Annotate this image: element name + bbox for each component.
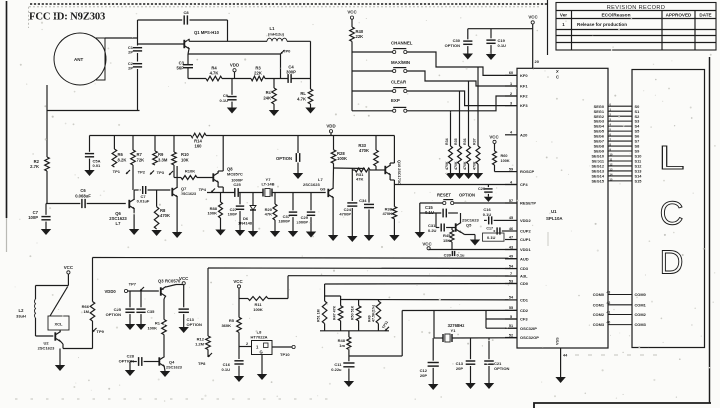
svg-text:R51 1M: R51 1M (317, 309, 321, 322)
svg-text:10K: 10K (181, 158, 189, 163)
capacitor C8 (183, 10, 189, 25)
wire OSC32IP (486, 327, 517, 329)
svg-text:470K: 470K (463, 161, 467, 170)
svg-text:VCC: VCC (422, 242, 432, 247)
resistor R12 line (195, 268, 210, 357)
svg-text:XCL: XCL (55, 322, 64, 327)
svg-text:33uH: 33uH (16, 314, 26, 319)
svg-text:52: 52 (509, 333, 513, 337)
svg-text:DATE: DATE (699, 13, 711, 18)
capacitor C21 OPTION and ground (484, 338, 510, 389)
svg-text:59: 59 (509, 167, 513, 171)
svg-text:TP8: TP8 (198, 361, 206, 366)
svg-text:S15: S15 (635, 179, 643, 184)
pin 45 VDD2 (505, 216, 531, 223)
svg-text:OPTION: OPTION (187, 322, 202, 327)
LCD panel (632, 70, 705, 348)
svg-text:1800P: 1800P (278, 219, 290, 224)
svg-text:ANT: ANT (74, 57, 83, 62)
test point TP8 (198, 353, 212, 366)
svg-text:20: 20 (535, 59, 540, 64)
pin 2 KF2 (505, 92, 528, 99)
svg-text:7: 7 (510, 272, 512, 276)
keypad feed bus (351, 41, 353, 110)
wire MAX/MIN to KF1 (407, 71, 517, 86)
capacitor C12 and ground (420, 338, 439, 390)
svg-text:VSS: VSS (556, 337, 560, 345)
capacitor C13 OPTION and ground (179, 309, 202, 333)
capacitor OPTION on bus (276, 136, 303, 180)
transistor Q4 (159, 357, 182, 370)
svg-text:100P: 100P (228, 212, 238, 217)
resistor R48 (338, 331, 351, 356)
svg-text:C17: C17 (486, 227, 493, 231)
power VCC keypad (347, 10, 357, 28)
resistor R6 (112, 136, 126, 168)
svg-text:OPTION: OPTION (106, 312, 121, 317)
resistor R34 pulldown (445, 111, 456, 179)
svg-text:C35: C35 (147, 309, 155, 314)
svg-text:56P: 56P (177, 65, 185, 70)
wire input line y203 (46, 203, 126, 205)
svg-text:22K: 22K (254, 71, 262, 76)
wire CD3 bus (208, 267, 517, 270)
svg-text:VCC: VCC (233, 279, 243, 284)
wire Q3 emitter to VCC (166, 285, 184, 288)
resistor R1 (147, 320, 166, 357)
svg-text:57: 57 (509, 199, 513, 203)
svg-text:47K: 47K (265, 212, 272, 217)
svg-text:470K: 470K (473, 161, 477, 170)
svg-text:OSC32OP: OSC32OP (520, 335, 539, 340)
svg-text:0.068uF: 0.068uF (75, 194, 91, 199)
wire Q1 collector to L1 (189, 40, 267, 42)
svg-text:C39: C39 (444, 253, 452, 258)
svg-text:VDD0: VDD0 (105, 289, 117, 294)
supply bus y135 (90, 135, 395, 137)
switch CLEAR (352, 80, 407, 93)
pin 44 VSS (555, 337, 568, 383)
svg-text:1N4148: 1N4148 (238, 221, 253, 226)
svg-text:COM0: COM0 (593, 292, 604, 297)
wire crystal left riser (433, 311, 435, 339)
svg-text:1000P: 1000P (296, 220, 308, 225)
svg-text:L: L (658, 139, 684, 176)
pin 4 CF4 (505, 180, 528, 187)
svg-text:R37: R37 (473, 138, 477, 145)
svg-text:SEG15: SEG15 (591, 179, 604, 184)
wire antenna bottom loop (47, 60, 140, 111)
capacitor C6 (75, 188, 91, 208)
test point TP4 (199, 187, 215, 193)
power VCC regulator (233, 279, 243, 317)
svg-text:0.1U: 0.1U (220, 98, 229, 103)
transistor Q9 (303, 177, 334, 198)
svg-text:2SC1623: 2SC1623 (303, 182, 320, 187)
capacitor C28 OPTION (119, 354, 142, 377)
svg-text:20P: 20P (420, 373, 427, 378)
pin 59 ROSCP (505, 167, 535, 174)
svg-text:470K: 470K (445, 161, 449, 170)
transistor Q1 (184, 30, 219, 49)
resistor R40 (350, 27, 364, 41)
svg-text:CLEAR: CLEAR (391, 80, 407, 85)
capacitor C15 (425, 205, 446, 217)
capacitor C37 and ground (278, 193, 298, 238)
resistor R14 series in bus (191, 133, 206, 148)
resistor R10 (172, 136, 190, 166)
wire feedback top (138, 20, 228, 41)
svg-text:470K: 470K (382, 211, 392, 216)
wire reset RC node (415, 203, 425, 238)
svg-text:A20: A20 (520, 132, 528, 137)
svg-text:R9: R9 (158, 152, 164, 157)
transistor Q3 PNP (158, 279, 181, 297)
svg-text:Release for production: Release for production (577, 22, 627, 27)
test point TP9 (93, 328, 105, 334)
wire Q8 collector to bus (218, 136, 223, 174)
wire Q7 collector (176, 166, 178, 188)
power VCC q3 (179, 276, 189, 307)
resistor R3 (251, 66, 265, 81)
svg-text:R10: R10 (181, 152, 189, 157)
svg-text:L2: L2 (19, 308, 25, 313)
wire C15 line (420, 212, 458, 214)
svg-text:Q5: Q5 (466, 223, 472, 228)
capacitor C35 and ground (136, 291, 155, 330)
svg-text:3.3M: 3.3M (158, 158, 168, 163)
revision record table (548, 0, 717, 55)
transistor Q8 (213, 167, 243, 183)
wire Q6 emitter ground (129, 208, 139, 235)
svg-text:R34: R34 (445, 138, 449, 145)
test point TP2 (138, 170, 154, 175)
svg-text:CD2: CD2 (520, 308, 529, 313)
resistor R31 horizontal (352, 168, 385, 182)
capacitor C16 (483, 207, 505, 224)
wire OSC32OP crystal line (434, 337, 517, 339)
tank loop wires (36, 286, 69, 337)
resistor R51 1M (317, 301, 327, 331)
svg-text:0.01uF: 0.01uF (137, 199, 150, 204)
svg-text:TP1: TP1 (113, 169, 121, 174)
inductor L1 (267, 26, 287, 41)
svg-text:47.5K(1%): 47.5K(1%) (372, 304, 376, 322)
svg-text:MAX/MIN: MAX/MIN (391, 60, 410, 65)
test point TP3 (157, 170, 173, 175)
capacitor C1 (128, 45, 142, 55)
capacitor C3 on Q1 emitter (177, 54, 193, 79)
FCC ID title (29, 12, 105, 23)
svg-text:0.1U: 0.1U (498, 43, 507, 48)
pin 57 RESETP (505, 199, 536, 206)
svg-text:VDD2: VDD2 (520, 218, 531, 223)
svg-text:MC857C: MC857C (227, 172, 243, 177)
svg-text:Y1: Y1 (451, 328, 457, 333)
wire Q9 collector node (333, 168, 365, 189)
diode D6 and ground (238, 193, 258, 238)
wire Q4 emitter ground (160, 366, 170, 377)
svg-text:VDD: VDD (326, 124, 335, 129)
svg-text:15K: 15K (443, 238, 450, 243)
IC U1 SPL10A body (517, 68, 608, 348)
svg-text:COM2: COM2 (635, 312, 647, 317)
crystal Y1 32768Hz (443, 323, 464, 342)
svg-text:OPTION: OPTION (459, 193, 475, 198)
wire CD2 bus (402, 309, 517, 311)
resistor R28 (331, 136, 347, 169)
svg-text:C26: C26 (478, 187, 485, 191)
resistor R5 (221, 317, 241, 346)
svg-text:COM3: COM3 (593, 322, 605, 327)
svg-text:1M: 1M (83, 309, 89, 314)
svg-text:300P: 300P (286, 70, 296, 75)
svg-text:D: D (660, 244, 684, 281)
crystal box XCL (48, 287, 69, 331)
test point TP0 (281, 49, 292, 55)
svg-text:C8: C8 (183, 10, 189, 15)
signal line y192 (207, 192, 326, 194)
capacitor C4 (286, 65, 296, 83)
svg-text:60: 60 (509, 71, 513, 75)
svg-text:0.1U: 0.1U (483, 212, 492, 217)
power VCC IC (528, 15, 539, 69)
svg-text:4.7K: 4.7K (297, 97, 306, 102)
svg-text:EXP: EXP (391, 98, 400, 103)
svg-text:TP9: TP9 (97, 329, 105, 334)
wire Q9 emitter ground (328, 197, 338, 241)
wire vertical C1/C2 branch (137, 20, 139, 111)
pin 52 OSC32OP (505, 333, 539, 340)
svg-text:470K: 470K (359, 148, 369, 153)
svg-text:43: 43 (509, 245, 513, 249)
svg-text:47: 47 (509, 235, 513, 239)
crystal Y7 (261, 177, 274, 197)
svg-text:100K: 100K (207, 211, 217, 216)
wire Q3 collector (164, 296, 166, 320)
svg-text:L7: L7 (116, 221, 122, 226)
transistor Q6 (109, 199, 134, 226)
switch RESET (437, 193, 475, 205)
svg-text:2P: 2P (128, 50, 133, 55)
svg-text:X: X (556, 69, 559, 74)
capacitor C2 (128, 61, 142, 71)
wire Q1 emitter / TP0 line (188, 48, 281, 78)
svg-text:L1: L1 (270, 26, 276, 31)
pin 53 CD0 (505, 279, 529, 286)
power VDD0 (105, 289, 159, 294)
wire Q2 emitter (60, 341, 92, 349)
wire CD0 drop (324, 284, 326, 301)
svg-text:42: 42 (607, 301, 611, 305)
power VCC osc (64, 265, 74, 286)
capacitor C11 and ground (331, 356, 354, 387)
pin 43 VDD1 (505, 245, 531, 252)
svg-text:VCC: VCC (347, 10, 357, 15)
svg-text:1.2M: 1.2M (195, 341, 205, 346)
capacitor C25 series (231, 178, 243, 197)
svg-text:Q1 MPS-H10: Q1 MPS-H10 (194, 30, 220, 35)
svg-text:C25: C25 (233, 182, 241, 187)
svg-text:55: 55 (509, 306, 513, 310)
svg-text:Q4: Q4 (169, 360, 175, 365)
svg-text:LT-14B: LT-14B (261, 182, 274, 187)
SEG pin rows (591, 103, 642, 184)
svg-text:VCC: VCC (64, 265, 74, 270)
capacitor C24 and ground (339, 168, 357, 242)
svg-text:VDD1: VDD1 (520, 247, 531, 252)
svg-text:470K: 470K (160, 213, 170, 218)
capacitor C26 OPTION on KF4 line (478, 185, 493, 202)
wire bias line y78 (188, 78, 311, 80)
svg-text:2SC1623: 2SC1623 (166, 366, 182, 370)
capacitor C7 and ground (28, 204, 51, 236)
wire Q10 collector to bus (390, 136, 394, 166)
COM pin rows (593, 291, 647, 328)
svg-text:360K: 360K (221, 323, 231, 328)
svg-text:46: 46 (509, 227, 513, 231)
wire AUD bus (93, 257, 518, 260)
svg-text:45: 45 (509, 216, 513, 220)
svg-text:0.1U: 0.1U (222, 367, 231, 372)
resistor R2 (30, 111, 49, 204)
svg-text:C: C (556, 75, 559, 80)
capacitor C30 OPTION and ground (445, 29, 473, 60)
wire CF3 hook (486, 311, 517, 329)
power VCC ROSC and resistor R60 (489, 135, 509, 172)
svg-text:0.1u: 0.1u (457, 253, 466, 258)
svg-text:CHANNEL: CHANNEL (391, 41, 413, 46)
wire Q5 base / C31 (436, 213, 456, 228)
svg-text:C34: C34 (359, 198, 367, 203)
svg-text:OPTION: OPTION (445, 43, 460, 48)
svg-text:RL: RL (300, 91, 306, 96)
wire CLEAR to KF3 (407, 91, 517, 106)
svg-text:OPTION: OPTION (119, 358, 134, 363)
capacitor C25b OPTION and ground (106, 291, 136, 330)
svg-text:1: 1 (510, 82, 512, 86)
svg-text:0.1U: 0.1U (425, 210, 434, 215)
svg-text:REVISION RECORD: REVISION RECORD (607, 5, 666, 11)
svg-text:100K: 100K (501, 159, 510, 163)
svg-text:Q7: Q7 (181, 186, 187, 191)
svg-text:24K: 24K (263, 96, 271, 101)
svg-text:CF3: CF3 (520, 317, 528, 322)
capacitor C31 (428, 223, 444, 233)
wire U8 output TP10 (272, 345, 295, 357)
test point TP1 (113, 169, 130, 174)
pin 54 CD1 (505, 296, 529, 303)
svg-text:AUD: AUD (520, 256, 529, 261)
power VCC reset (422, 242, 432, 250)
resistor R7 (131, 136, 144, 166)
pin 3 KF3 (505, 101, 528, 108)
svg-text:HT7022A: HT7022A (250, 334, 267, 339)
wire interstage y190 (134, 189, 170, 191)
svg-text:COM1: COM1 (635, 302, 647, 307)
svg-text:R6: R6 (118, 152, 124, 157)
svg-text:TP0: TP0 (283, 49, 291, 54)
svg-text:VCC: VCC (528, 15, 538, 20)
svg-text:TP7: TP7 (129, 282, 137, 287)
svg-text:4700P: 4700P (339, 212, 351, 217)
capacitor C16b and ground (222, 347, 245, 383)
svg-text:100K: 100K (337, 156, 347, 161)
svg-text:TP4: TP4 (199, 187, 207, 192)
svg-text:47K: 47K (356, 177, 363, 182)
svg-text:TP3: TP3 (157, 170, 165, 175)
wire RESETP (420, 202, 517, 204)
resistor R47 47K (333, 305, 343, 330)
svg-text:OSC32IP: OSC32IP (520, 326, 537, 331)
svg-text:VDD: VDD (230, 63, 239, 68)
transistor Q5 (456, 218, 480, 233)
svg-text:C6: C6 (80, 188, 86, 193)
svg-text:0.22u: 0.22u (331, 367, 342, 372)
resistor R88 and ground (207, 193, 225, 236)
resistor R20 and ground (265, 193, 281, 238)
svg-text:72K: 72K (137, 158, 145, 163)
svg-text:2.7K: 2.7K (30, 164, 39, 169)
svg-text:100K: 100K (147, 326, 157, 331)
svg-text:160: 160 (195, 144, 203, 149)
capacitor C17 (486, 227, 505, 235)
resistor R35 pulldown (454, 91, 465, 179)
svg-text:FCC ID: N9Z303: FCC ID: N9Z303 (29, 12, 105, 23)
svg-text:CUP2: CUP2 (520, 229, 531, 234)
test point TP11 (381, 320, 389, 331)
svg-text:CD0: CD0 (520, 281, 529, 286)
divider bottom rail (320, 330, 389, 332)
capacitor C9 and ground (220, 79, 238, 114)
resistor R50 51K (351, 300, 361, 331)
svg-text:2: 2 (246, 342, 248, 346)
test point TP7 (129, 282, 144, 292)
scan smudge under IC (548, 232, 660, 355)
wire L1 right down (287, 41, 311, 89)
wire Q7 emitter ground (172, 196, 182, 238)
resistor R49 47.5K (367, 300, 380, 331)
pin 4 A20 (505, 131, 528, 138)
pin 5 CF3 (505, 315, 528, 322)
svg-text:SPL10A: SPL10A (546, 216, 563, 221)
svg-text:VCC: VCC (179, 276, 189, 281)
svg-text:Q3: Q3 (158, 279, 164, 284)
ground U8 (257, 355, 267, 381)
pin 55 CD2 (505, 306, 529, 313)
svg-text:2SC1623: 2SC1623 (181, 192, 196, 196)
IC U8 HT7022A (239, 330, 272, 355)
svg-text:VCC: VCC (489, 135, 499, 140)
resistor R8 and ground (151, 190, 170, 236)
svg-text:2: 2 (510, 92, 512, 96)
svg-text:0.2U: 0.2U (428, 228, 437, 233)
svg-text:OPTION: OPTION (494, 366, 509, 371)
svg-text:RESETP: RESETP (520, 201, 536, 206)
svg-text:G: G (260, 350, 263, 355)
svg-text:U1: U1 (551, 209, 557, 214)
svg-text:43: 43 (607, 291, 611, 295)
wire Q4 base line (130, 361, 159, 363)
svg-text:5: 5 (510, 315, 512, 319)
svg-text:KF1: KF1 (520, 84, 528, 89)
resistor R4 (206, 66, 222, 81)
switch CHANNEL (352, 41, 413, 54)
wire R48 to CD2 (349, 311, 402, 357)
capacitor C34 and ground (359, 170, 374, 241)
wire CD1 bus (341, 299, 517, 301)
svg-text:4.7K: 4.7K (210, 71, 219, 76)
